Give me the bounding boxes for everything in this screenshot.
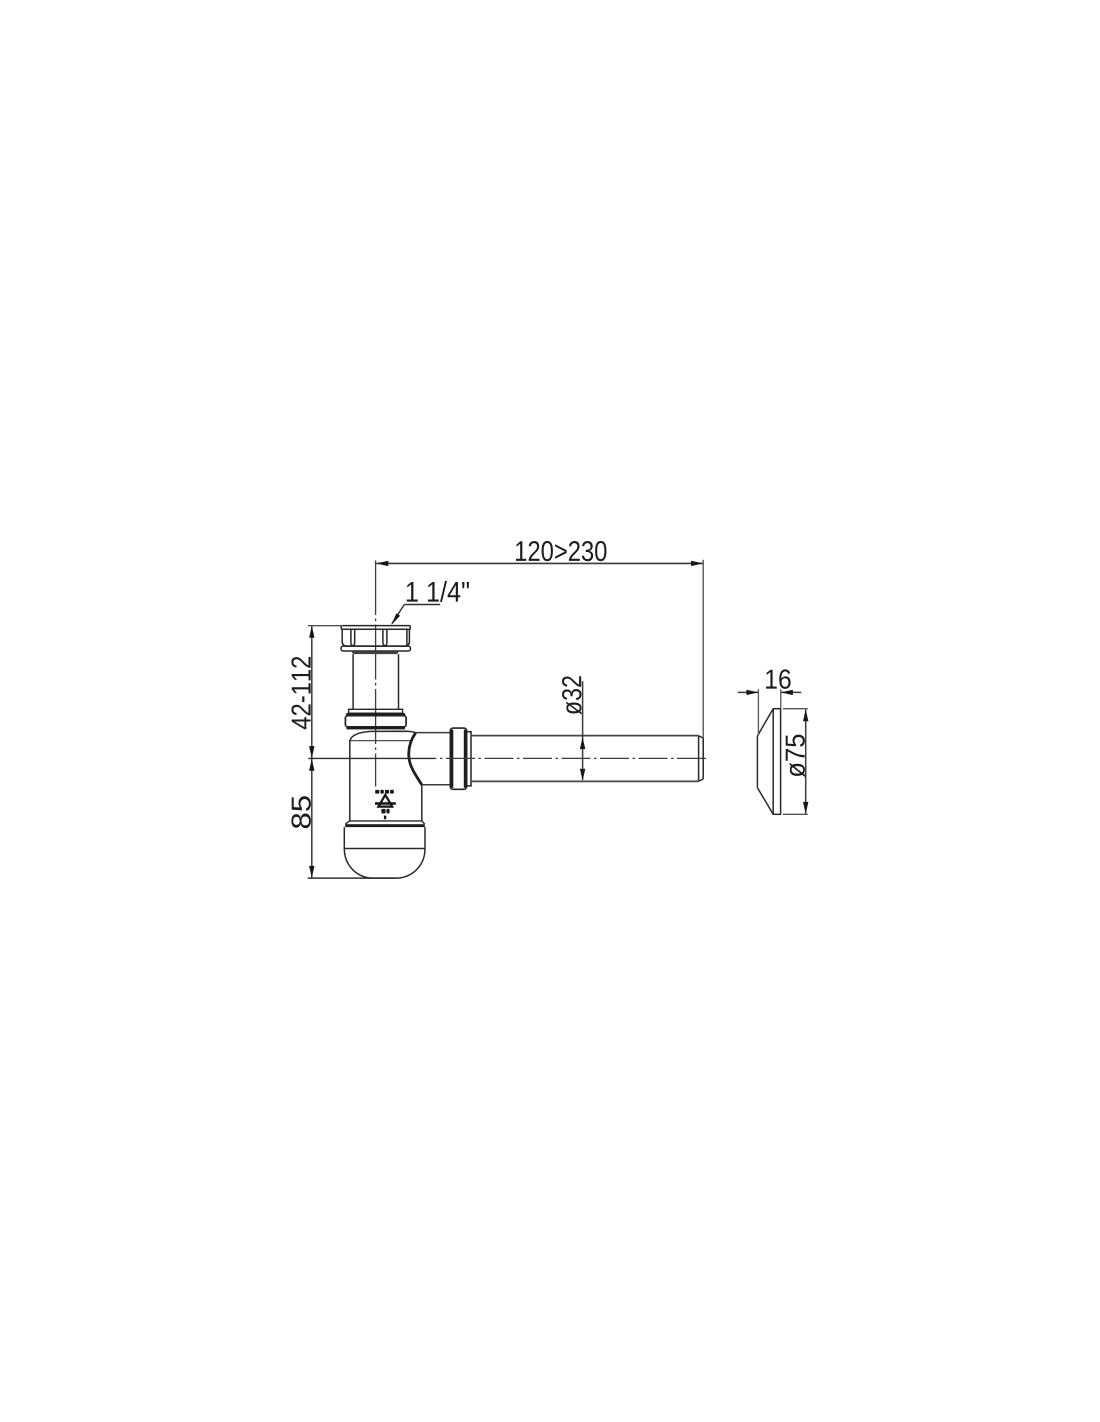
ø75 extension lines [783, 709, 808, 815]
left dimension line 85 [311, 759, 313, 877]
outlet spout edges [416, 733, 451, 785]
left dimension arrows [309, 626, 314, 878]
trap body contour line [350, 740, 412, 742]
extension line at cup bottom [308, 877, 396, 879]
body moulded PP text [381, 809, 389, 814]
cup dark band [345, 824, 425, 827]
trap body S-curve to outlet [409, 733, 422, 785]
outlet pipe [471, 736, 699, 782]
collar upper dark band [346, 713, 405, 716]
label 1 1/4" leader [392, 605, 440, 624]
body moulded tick [384, 816, 386, 820]
text 16 [766, 669, 791, 689]
horizontal centerline of outlet [308, 757, 434, 759]
outlet nut ring [467, 732, 471, 786]
text 85 [291, 796, 311, 828]
label 1 1/4" arrowhead [391, 613, 400, 625]
dimension line for ø32 [582, 681, 584, 780]
cup outline [344, 827, 425, 878]
dimension 120>230 arrows [376, 561, 703, 566]
inlet nut facet slots [351, 630, 407, 646]
inlet nut lower transition shading [351, 651, 399, 654]
outlet nut thick edges [450, 730, 453, 788]
trap body outline [350, 731, 422, 821]
text ø32 [562, 676, 582, 714]
inlet tube [353, 654, 398, 709]
recycle triangle side marks [375, 802, 396, 805]
extension line at nut top [308, 625, 344, 627]
outlet compression nut [450, 728, 466, 789]
collar lower dark band [347, 727, 405, 730]
body bottom flare [345, 821, 424, 824]
ø32 arrows [580, 737, 585, 781]
dimension 120>230 dim line [377, 562, 703, 564]
text 42-112 [291, 657, 310, 729]
inlet nut (1 1/4 compression nut) [341, 626, 411, 651]
body compression nut [345, 716, 406, 727]
wall rosette outline [757, 709, 780, 815]
tube collar step ring [349, 709, 403, 713]
dimension ø75 line [805, 710, 807, 814]
dimension 120>230 text [516, 541, 606, 561]
label 1 1/4" text [407, 581, 469, 602]
vertical centerline of inlet tube [375, 561, 377, 787]
ø75 arrows [803, 709, 808, 814]
dimension 16 lines [738, 691, 801, 693]
dimension 16 extension lines [758, 689, 780, 735]
left dimension line 42-112 [311, 626, 313, 758]
text ø75 [786, 735, 805, 778]
dimension 16 arrows [746, 690, 792, 695]
body moulded mark text [375, 790, 394, 794]
extension line right of 120>230 [702, 560, 704, 773]
outlet pipe end [699, 736, 704, 781]
body moulded recycle triangle [378, 795, 392, 807]
